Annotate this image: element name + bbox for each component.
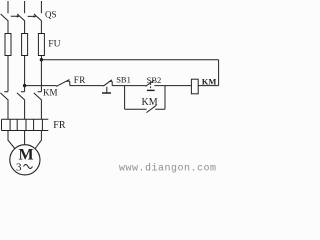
phase tilde [24, 165, 33, 169]
svg-text:3: 3 [16, 162, 22, 174]
svg-text:KM: KM [43, 88, 58, 98]
KM main contact 3 [34, 92, 42, 100]
wire L2 fuse to contact [24, 56, 26, 92]
switch QS pole 1 blade [1, 14, 9, 21]
control line segment 1 [25, 85, 57, 87]
control line segment 3 [112, 85, 146, 87]
svg-text:SB1: SB1 [116, 74, 131, 84]
svg-text:FU: FU [48, 40, 60, 50]
fuse FU 1 [5, 34, 11, 56]
svg-text:KM: KM [202, 77, 217, 87]
junction dot L2 control [23, 84, 26, 87]
motor circle M [10, 145, 40, 175]
KM aux contact blade [146, 105, 156, 112]
FR heater box [2, 119, 49, 130]
aux branch bottom wire [125, 108, 165, 110]
SB2 button head [147, 89, 155, 91]
top control rail [41, 59, 218, 61]
wire to motor 3 [35, 131, 41, 149]
svg-text:KM: KM [142, 97, 158, 108]
KM coil [191, 79, 198, 94]
wire L3 switch to fuse [40, 21, 42, 34]
wire L3 fuse to contact [40, 56, 42, 92]
QS linkage arrowhead 2 [34, 15, 37, 18]
wire L1 fuse to contact [7, 56, 9, 92]
right control drop [218, 60, 220, 86]
KM main contact 1 [0, 92, 8, 100]
wire L3 contact to FR box [40, 100, 42, 119]
SB1 button head [102, 92, 111, 94]
FR NC contact [56, 80, 70, 87]
wire L3 top [40, 1, 42, 13]
aux branch left vertical [124, 86, 126, 110]
svg-text:SB2: SB2 [147, 75, 162, 85]
wire L1 top [7, 1, 9, 13]
KM main contact 2 [17, 92, 25, 100]
wire L2 switch to fuse [24, 21, 26, 34]
wire L1 switch to fuse [7, 21, 9, 34]
svg-text:FR: FR [74, 75, 86, 85]
wire L2 top [24, 1, 26, 13]
junction dot L3 rail [40, 58, 43, 61]
control line segment 2 [70, 85, 104, 87]
SB1 NC button [103, 80, 112, 93]
switch QS pole 3 blade [34, 14, 42, 21]
SB2 NO button [146, 80, 155, 86]
wire to motor 2 [24, 131, 26, 145]
QS linkage dashed line [11, 15, 35, 17]
wire to motor 1 [8, 131, 15, 149]
switch QS pole 2 blade [17, 14, 25, 21]
wire L2 contact to FR box [24, 100, 26, 119]
svg-text:FR: FR [53, 120, 66, 131]
SB2 actuator stem [150, 83, 152, 89]
wire L1 contact to FR box [7, 100, 9, 119]
svg-text:www.diangon.com: www.diangon.com [119, 163, 217, 175]
fuse FU 3 [38, 34, 44, 56]
svg-text:QS: QS [45, 9, 57, 19]
fuse FU 2 [22, 34, 28, 56]
control line segment 4 [154, 85, 191, 87]
coil to right drop [198, 85, 218, 87]
aux branch right vertical [164, 86, 166, 110]
QS linkage arrowhead 1 [17, 15, 20, 18]
